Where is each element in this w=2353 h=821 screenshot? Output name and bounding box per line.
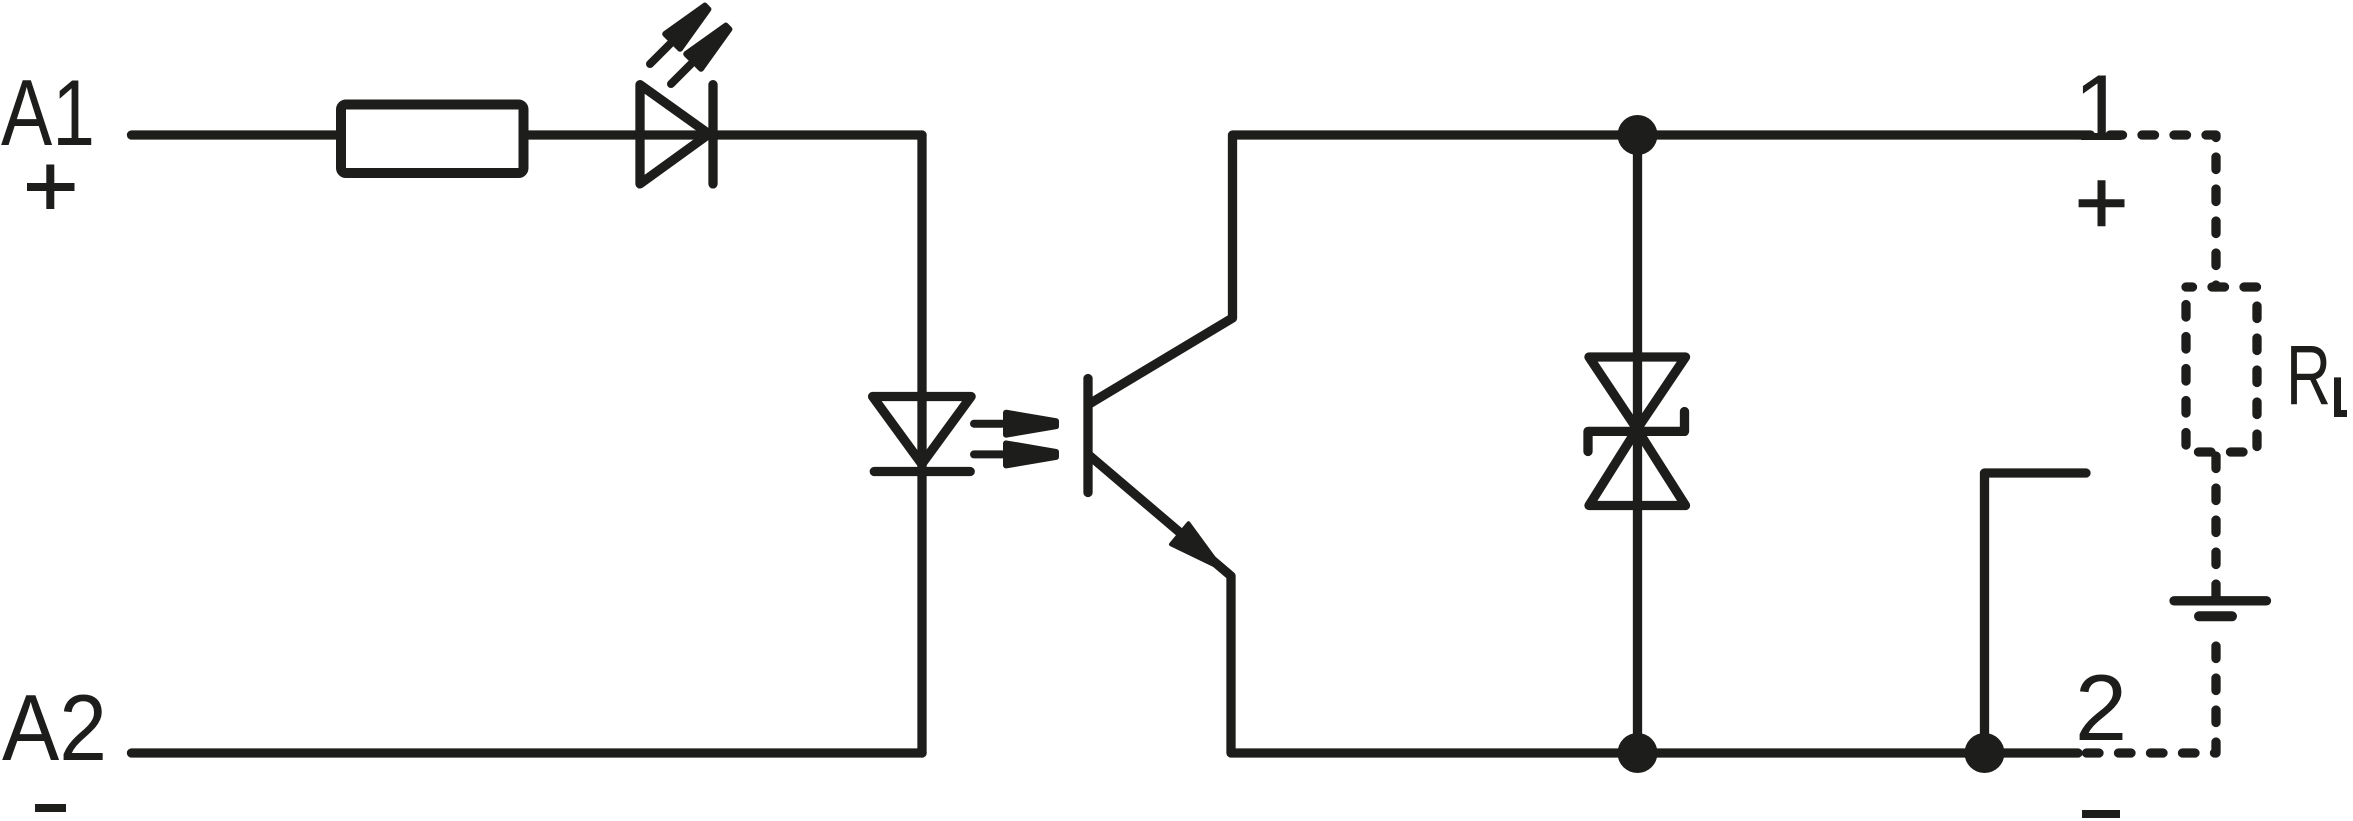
optocoupler light arrow upper bbox=[974, 413, 1056, 435]
LED D1 anode bar and triangle bbox=[640, 85, 709, 184]
phototransistor Q1 collector and top rail bbox=[1090, 135, 2078, 404]
optocoupler LED D2 cathode bar bbox=[874, 467, 970, 476]
node junction dot bottom rail bbox=[1618, 733, 1658, 773]
svg-text:A1: A1 bbox=[1, 60, 95, 165]
node junction dot hook bbox=[1965, 733, 2005, 773]
dashed wire battery to terminal 2 bbox=[2082, 646, 2216, 753]
phototransistor Q1 base bar bbox=[1083, 379, 1092, 493]
wire resistor to LED and corner bbox=[523, 130, 922, 139]
polarity + of terminal 1 bbox=[2079, 180, 2125, 226]
wire A1 to resistor bbox=[132, 130, 338, 139]
wire hook to terminal 2 bbox=[1985, 473, 2087, 753]
node junction dot top rail bbox=[1618, 115, 1658, 155]
load resistor RL dashed box bbox=[2186, 287, 2257, 452]
phototransistor Q1 emitter and bottom rail bbox=[1090, 456, 2078, 753]
suppressor diode D3 top triangle bbox=[1589, 357, 1686, 429]
wire TVS vertical bbox=[1633, 135, 1642, 753]
optocoupler LED D2 top bar and triangle bbox=[873, 397, 972, 465]
svg-text:A2: A2 bbox=[2, 675, 107, 780]
suppressor diode D3 crossbar with hooks bbox=[1588, 412, 1685, 452]
svg-text:2: 2 bbox=[2075, 655, 2127, 760]
battery B1 positive plate bbox=[2174, 596, 2267, 605]
LED D1 light emission arrow lower bbox=[664, 20, 735, 91]
polarity - of A2 bbox=[35, 804, 66, 812]
LED D1 light emission arrow upper bbox=[643, 0, 714, 71]
svg-text:R: R bbox=[2286, 328, 2331, 422]
suppressor diode D3 bottom triangle bbox=[1589, 429, 1686, 505]
resistor R1 bbox=[341, 105, 524, 174]
polarity + of A1 bbox=[27, 165, 75, 210]
battery B1 negative plate bbox=[2199, 611, 2232, 621]
dashed wire RL to battery bbox=[2211, 456, 2220, 596]
optocoupler light arrow lower bbox=[974, 443, 1056, 465]
wire down from corner to bottom rail bbox=[917, 135, 926, 753]
polarity - of terminal 2 bbox=[2082, 810, 2120, 818]
wire bottom rail A2 side bbox=[132, 748, 923, 757]
phototransistor Q1 emitter arrowhead bbox=[1171, 523, 1222, 569]
LED D1 cathode bar bbox=[708, 85, 717, 184]
dashed wire terminal 1 to load bbox=[2078, 135, 2216, 287]
svg-text:1: 1 bbox=[2074, 55, 2126, 160]
